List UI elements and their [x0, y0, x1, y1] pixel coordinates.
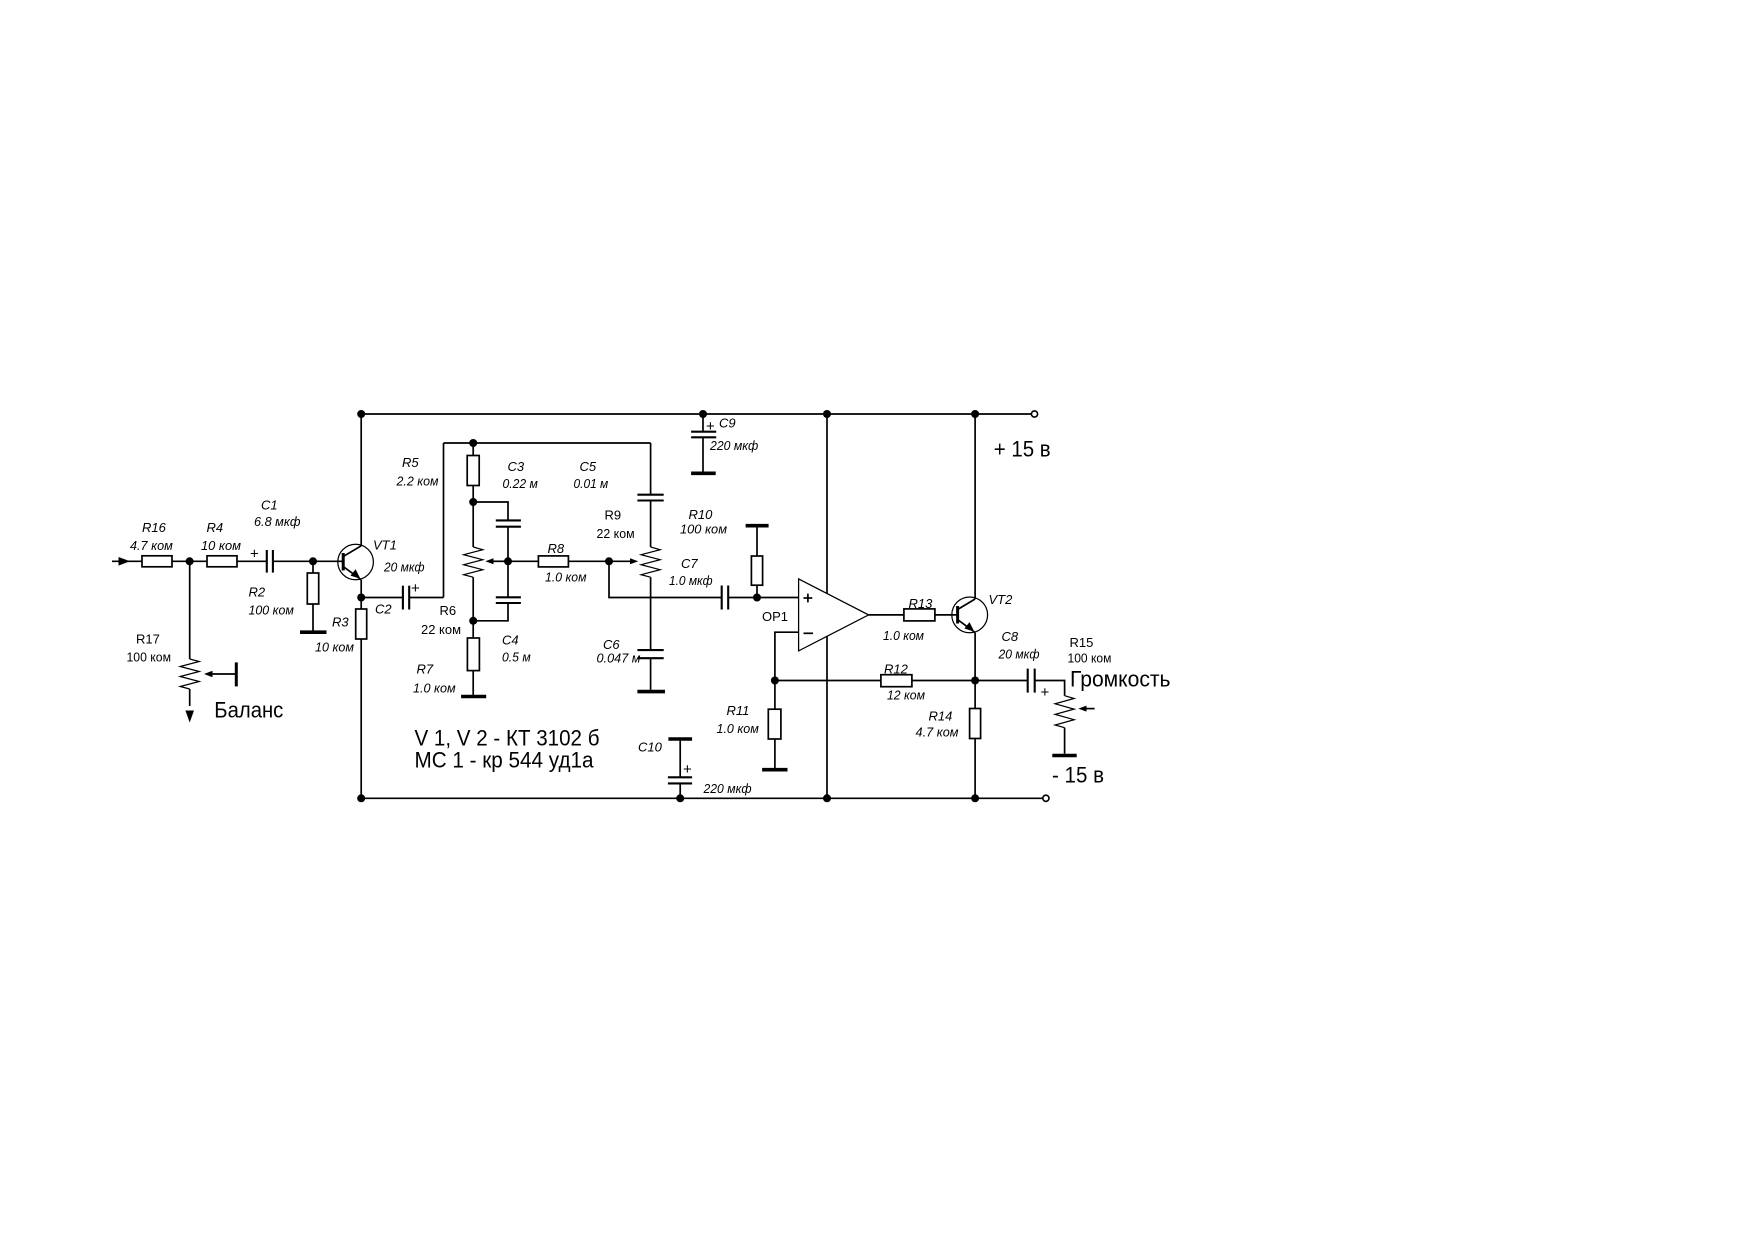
svg-text:R4: R4: [207, 520, 224, 535]
wire C6 bottom stub: [650, 658, 652, 690]
svg-text:R2: R2: [249, 585, 266, 600]
svg-text:+: +: [1041, 684, 1050, 701]
svg-text:R3: R3: [332, 615, 349, 630]
svg-text:Баланс: Баланс: [214, 698, 283, 723]
node feedback / R11: [771, 677, 779, 685]
wire C1 to VT1 base: [273, 560, 343, 562]
potentiometer R15: [1055, 635, 1111, 728]
wire wiper node to R8: [508, 560, 538, 562]
wire R2 top stub: [312, 561, 314, 573]
wire R9 bottom to C6: [650, 577, 652, 650]
svg-text:R14: R14: [929, 709, 953, 724]
svg-text:1.0 ком: 1.0 ком: [545, 570, 587, 585]
node VT1 emitter / R3 / C2: [357, 594, 365, 602]
potentiometer R17: [127, 561, 237, 722]
wire C2 to riser: [409, 597, 443, 599]
node bottom rail / power vertical: [823, 794, 831, 802]
svg-text:10 ком: 10 ком: [315, 639, 354, 654]
svg-text:R16: R16: [142, 520, 167, 535]
svg-text:C10: C10: [638, 740, 663, 755]
wire VT1 emitter down: [360, 580, 362, 598]
wire VT2 emitter down: [974, 633, 976, 681]
resistor R5: [396, 455, 480, 489]
resistor R11: [717, 681, 781, 769]
node R14 / -rail: [971, 794, 979, 802]
svg-text:220 мкф: 220 мкф: [709, 438, 758, 453]
svg-text:R15: R15: [1070, 635, 1094, 650]
svg-text:МС 1 - кр 544 уд1а: МС 1 - кр 544 уд1а: [415, 748, 595, 773]
node VT2 collector / +rail: [971, 410, 979, 418]
wire R4 to C1: [237, 560, 267, 562]
wire top link: [444, 442, 651, 444]
wire R3 top stub: [360, 598, 362, 610]
svg-text:1.0 ком: 1.0 ком: [883, 628, 924, 643]
svg-text:22 ком: 22 ком: [597, 526, 635, 541]
svg-text:4.7 ком: 4.7 ком: [916, 725, 959, 740]
svg-text:OP1: OP1: [762, 609, 788, 624]
node R6/R7/C4: [469, 617, 477, 625]
svg-text:100 ком: 100 ком: [1068, 651, 1112, 666]
wire C4 bottom to R7 node: [473, 603, 508, 621]
svg-text:10 ком: 10 ком: [201, 538, 241, 553]
svg-text:+: +: [683, 761, 692, 778]
svg-text:100 ком: 100 ком: [249, 603, 294, 618]
wire R5 top stub: [472, 443, 474, 456]
svg-text:C4: C4: [502, 633, 519, 648]
svg-text:22 ком: 22 ком: [421, 622, 461, 637]
capacitor C1: [250, 498, 301, 573]
wire C7 to OP1 + input: [728, 597, 798, 599]
+15V terminal circle: [1031, 411, 1037, 417]
resistor R16: [130, 520, 173, 567]
capacitor C9: [691, 414, 758, 473]
-15V terminal circle: [1043, 795, 1049, 801]
resistor R14: [916, 681, 981, 799]
svg-text:Громкость: Громкость: [1070, 667, 1171, 692]
svg-text:0.22 м: 0.22 м: [503, 476, 538, 491]
wire C3 to wiper node: [507, 527, 509, 562]
ground bar under R2: [300, 630, 327, 634]
wire OP1 output: [869, 614, 904, 616]
svg-text:4.7 ком: 4.7 ком: [130, 538, 173, 553]
potentiometer R9: [597, 508, 661, 578]
wire R7 top stub: [472, 621, 474, 638]
svg-text:R9: R9: [605, 508, 622, 523]
svg-text:C1: C1: [261, 498, 278, 513]
svg-text:C3: C3: [508, 459, 525, 474]
svg-text:0.01 м: 0.01 м: [574, 476, 609, 491]
svg-text:0.047 м: 0.047 м: [597, 651, 641, 666]
wire R2 bottom stub: [312, 604, 314, 631]
resistor R4: [201, 520, 241, 567]
capacitor C10: [638, 739, 752, 798]
svg-text:R7: R7: [417, 662, 434, 677]
wire OP1 - input: [775, 632, 799, 680]
wire R16 to R4: [172, 560, 207, 562]
wire C8 to R15: [1035, 681, 1065, 696]
svg-text:R8: R8: [548, 541, 565, 556]
svg-text:- 15 в: - 15 в: [1052, 762, 1104, 787]
svg-text:12 ком: 12 ком: [887, 688, 925, 703]
ground bar under R7: [461, 695, 486, 699]
node top rail / power vertical: [823, 410, 831, 418]
svg-text:+: +: [411, 580, 420, 597]
resistor R10: [680, 507, 769, 597]
svg-text:R5: R5: [402, 455, 419, 470]
svg-text:2.2 ком: 2.2 ком: [396, 473, 439, 488]
wire VT1 collector to +rail: [360, 414, 362, 546]
svg-text:+: +: [250, 546, 259, 563]
wire R13 to VT2 base: [935, 614, 958, 616]
wire wiper node to C4: [507, 561, 509, 597]
node R2 junction: [309, 557, 317, 565]
svg-text:R12: R12: [884, 662, 909, 677]
ground bar under R11: [762, 768, 787, 772]
svg-text:C5: C5: [580, 459, 597, 474]
svg-text:C2: C2: [375, 601, 392, 616]
svg-text:0.5 м: 0.5 м: [502, 649, 531, 664]
wire R15 bottom stub: [1064, 728, 1066, 754]
wire VT2 collector to +rail: [974, 414, 976, 599]
potentiometer R6: [421, 502, 508, 637]
input wire with arrow: [112, 557, 142, 566]
node VT2 emitter / R12 / C8 / R14: [971, 677, 979, 685]
capacitor C6: [597, 637, 664, 666]
svg-text:220 мкф: 220 мкф: [703, 781, 752, 796]
svg-text:1.0 ком: 1.0 ком: [717, 721, 759, 736]
svg-text:1.0 ком: 1.0 ком: [413, 680, 456, 695]
svg-text:20 мкф: 20 мкф: [383, 560, 425, 575]
svg-text:VT1: VT1: [373, 538, 397, 553]
wire C5 riser from top link: [650, 443, 652, 495]
resistor R2: [249, 573, 319, 618]
node -rail left corner: [357, 794, 365, 802]
wire R7 bottom stub: [472, 671, 474, 695]
node +rail left corner: [357, 410, 365, 418]
svg-text:R6: R6: [440, 603, 457, 618]
capacitor C5: [574, 459, 664, 501]
wire R9 node down and right to C7: [609, 561, 722, 597]
svg-text:+ 15 в: + 15 в: [994, 436, 1051, 461]
wire power vertical upper (to OP1 top edge): [826, 414, 828, 594]
capacitor C3: [496, 459, 538, 527]
wire R8 to R9 node: [568, 560, 609, 562]
op-amp OP1: [762, 579, 869, 651]
wire node to C3: [473, 502, 508, 520]
transistor VT2: [952, 592, 1013, 633]
wire bottom -15V rail: [361, 797, 1042, 799]
wire emitter node to C2: [361, 597, 403, 599]
wire R12 to VT2 emitter node: [912, 680, 975, 682]
svg-text:R13: R13: [909, 596, 934, 611]
resistor R12: [881, 662, 925, 703]
svg-text:6.8 мкф: 6.8 мкф: [254, 514, 301, 529]
wire top +15V rail: [361, 413, 1031, 415]
svg-text:C8: C8: [1002, 629, 1019, 644]
node R5/R6/C3: [469, 498, 477, 506]
ground bar under C6: [637, 690, 665, 694]
svg-text:C7: C7: [681, 556, 698, 571]
svg-text:VT2: VT2: [989, 592, 1014, 607]
capacitor C8: [998, 629, 1050, 701]
svg-text:+: +: [706, 418, 715, 435]
node R5 top: [469, 439, 477, 447]
wire feedback node to R12: [775, 680, 881, 682]
capacitor C4: [496, 597, 531, 664]
node R10 / OP+: [753, 594, 761, 602]
svg-text:R11: R11: [727, 703, 750, 718]
resistor R13: [883, 596, 935, 643]
resistor R3: [315, 609, 367, 654]
wire riser up: [443, 443, 445, 598]
wire R3 to -rail: [360, 639, 362, 798]
wire VT2 emitter node to C8: [975, 680, 1028, 682]
node C9 / +rail: [699, 410, 707, 418]
svg-text:1.0 мкф: 1.0 мкф: [669, 573, 713, 588]
wire power vertical lower (from OP1 bottom edge): [826, 636, 828, 798]
wire R5 bottom stub: [472, 486, 474, 503]
node R8/R9 wiper: [605, 557, 613, 565]
node C10 / -rail: [676, 794, 684, 802]
svg-text:100 ком: 100 ком: [127, 650, 172, 665]
capacitor C2: [375, 560, 425, 617]
transistor VT1: [338, 538, 397, 580]
ground bar under R15: [1052, 754, 1076, 758]
node C3/C4/R8 wiper: [504, 557, 512, 565]
svg-text:R17: R17: [136, 632, 160, 647]
svg-text:100 ком: 100 ком: [680, 522, 727, 537]
wire C5 to R9: [650, 501, 652, 548]
resistor R8: [538, 541, 586, 585]
svg-text:C9: C9: [719, 416, 736, 431]
resistor R7: [413, 638, 479, 695]
node input/R17 junction: [186, 557, 194, 565]
svg-text:R10: R10: [689, 507, 714, 522]
capacitor C7: [669, 556, 728, 610]
svg-text:20 мкф: 20 мкф: [998, 647, 1040, 662]
